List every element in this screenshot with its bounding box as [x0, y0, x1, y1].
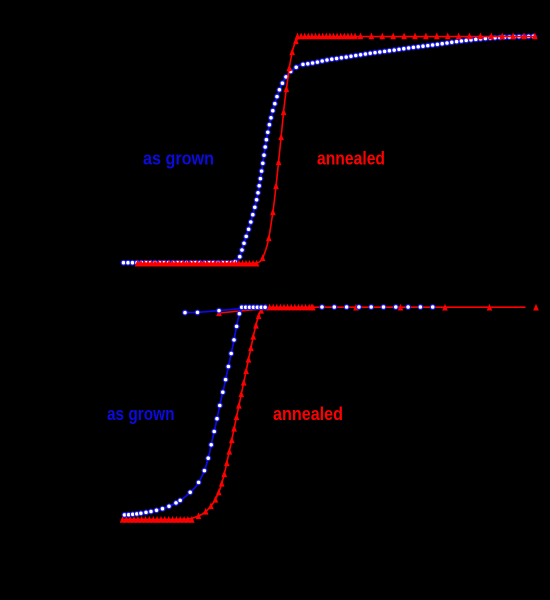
svg-text:annealed: annealed — [273, 404, 343, 424]
top panel: annealed red triangle markers (plateau sparse) — [358, 33, 538, 40]
top panel: annealed red triangle markers (steep rise) — [260, 37, 299, 261]
bottom panel: annealed red branch line from left triangle — [219, 309, 264, 313]
top panel: as-grown blue circle markers (gradual upper branch) — [301, 34, 536, 67]
top panel: annealed red curve line — [137, 37, 536, 264]
bottom panel: as-grown blue circle markers (left branch) — [183, 308, 222, 315]
svg-text:as grown: as grown — [143, 149, 214, 169]
bottom panel: annealed red triangle markers (plateau dense) — [263, 304, 315, 311]
bottom panel: as-grown blue circle markers (lower transition) — [144, 501, 179, 515]
top panel: as-grown blue circle markers (steep rise) — [233, 65, 299, 264]
top panel: annealed red triangle markers (flat bottom) — [135, 260, 260, 267]
top panel: annealed red triangle markers (plateau dense) — [295, 33, 358, 40]
bottom panel: as-grown blue circle markers (sparse upper line) — [320, 305, 435, 310]
bottom panel: annealed red curve line — [122, 307, 526, 519]
bottom panel: as-grown blue circle markers (steep rise) — [178, 311, 242, 502]
top panel: as-grown blue curve line — [122, 36, 538, 262]
bottom panel: annealed red triangle markers (flat bottom) — [120, 516, 195, 523]
bottom panel: annealed red final isolated triangle — [533, 304, 539, 311]
svg-text:as grown: as grown — [107, 404, 175, 424]
bottom panel: annealed red branch triangle — [216, 309, 222, 316]
bottom panel: as-grown blue left branch line — [185, 309, 240, 313]
bottom panel: as-grown blue circle markers (flat bottom) — [122, 511, 143, 517]
bottom panel: annealed red triangle markers (steep rise) — [196, 307, 264, 519]
top panel: as-grown blue circle markers (flat segment) — [121, 260, 234, 265]
svg-text:annealed: annealed — [317, 149, 385, 169]
bottom panel: annealed red triangle markers (plateau sparse) — [309, 304, 493, 311]
bottom panel: as-grown blue circle markers (top dense cluster) — [239, 305, 267, 310]
bottom panel: as-grown blue curve line — [123, 307, 266, 515]
